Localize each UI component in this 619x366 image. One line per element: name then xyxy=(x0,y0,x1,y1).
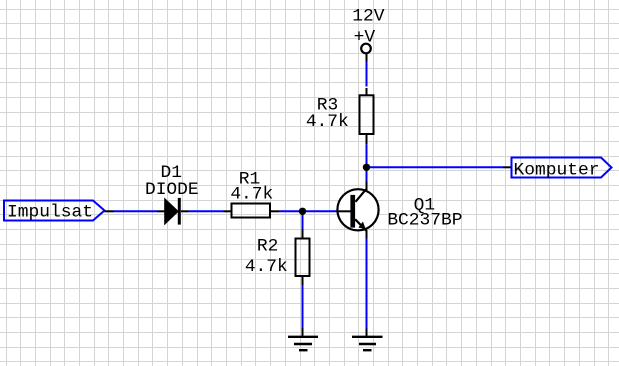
pin stub of Impulsat flag xyxy=(105,210,115,212)
wire junction down to R2 xyxy=(302,211,304,229)
wire junction to output flag xyxy=(367,166,504,168)
svg-text:4.7k: 4.7k xyxy=(306,112,349,132)
svg-text:4.7k: 4.7k xyxy=(245,257,288,277)
svg-text:Komputer: Komputer xyxy=(514,160,600,180)
wire junction up to R3 xyxy=(366,144,368,163)
svg-text:4.7k: 4.7k xyxy=(230,185,273,205)
ground (below emitter) xyxy=(352,329,383,351)
power terminal +V xyxy=(361,44,371,62)
wire collector to junction xyxy=(366,164,368,182)
resistor R3 xyxy=(360,88,374,144)
svg-text:Impulsat: Impulsat xyxy=(7,203,93,223)
svg-text:+V: +V xyxy=(354,28,376,48)
resistor R2 xyxy=(296,229,310,285)
svg-text:12V: 12V xyxy=(352,7,384,27)
input flag Impulsat xyxy=(4,201,105,223)
junction node base xyxy=(299,208,306,215)
transistor Q1 xyxy=(337,189,379,231)
wire flag to diode xyxy=(114,210,157,212)
svg-text:DIODE: DIODE xyxy=(145,180,199,200)
resistor R1 xyxy=(224,204,280,218)
diode D1 xyxy=(157,198,189,225)
wire R2 to ground xyxy=(302,285,304,328)
junction node collector xyxy=(363,164,370,171)
wire diode to R1 xyxy=(189,210,224,212)
svg-text:R2: R2 xyxy=(257,237,278,257)
wire R3 to power terminal xyxy=(366,62,368,87)
collector pin stub xyxy=(366,182,368,192)
wire emitter to ground xyxy=(366,239,368,329)
svg-text:BC237BP: BC237BP xyxy=(387,210,462,230)
output flag Komputer xyxy=(512,158,612,181)
emitter pin stub xyxy=(366,231,368,239)
wire R1 to transistor base xyxy=(279,210,337,212)
ground (below R2) xyxy=(288,328,318,350)
pin stub of Komputer flag xyxy=(503,166,512,168)
